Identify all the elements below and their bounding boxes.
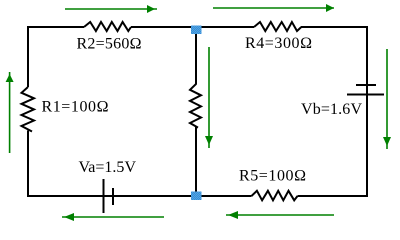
svg-text:Va=1.5V: Va=1.5V [79, 159, 137, 176]
svg-text:R5=100Ω: R5=100Ω [239, 168, 306, 185]
svg-text:R2=560Ω: R2=560Ω [77, 36, 142, 53]
svg-text:R4=300Ω: R4=300Ω [245, 35, 312, 52]
svg-text:Vb=1.6V: Vb=1.6V [301, 101, 362, 118]
svg-text:R1=100Ω: R1=100Ω [42, 99, 109, 116]
